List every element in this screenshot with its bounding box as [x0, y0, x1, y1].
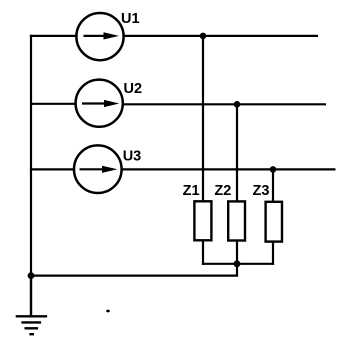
wire: drop phase 2 to Z2: [236, 104, 238, 201]
node: phase 1 / Z1 junction: [200, 33, 207, 40]
voltage source U2: [76, 80, 123, 127]
impedance Z3: [266, 202, 282, 242]
impedance Z1: [194, 201, 211, 240]
stray dot: [106, 310, 110, 313]
svg-text:Z1: Z1: [183, 183, 200, 199]
node: neutral junction: [234, 260, 241, 267]
wire: Z3 bottom stub: [272, 242, 274, 265]
wire: phase 1 U1 to right end: [124, 35, 318, 37]
wire: neutral bus Z1-Z3: [202, 263, 274, 265]
wire: phase 2 U2 to right end: [123, 103, 326, 105]
svg-text:Z2: Z2: [214, 183, 231, 199]
wire: phase 3 rail to U3: [30, 168, 74, 170]
node: return / rail junction: [28, 272, 35, 279]
wire: phase 2 rail to U2: [30, 103, 76, 105]
node: phase 2 / Z2 junction: [234, 101, 241, 108]
ground: [16, 274, 47, 334]
voltage source U1: [76, 13, 123, 60]
wire: phase 3 U3 to right end: [122, 168, 336, 170]
wire: phase 1 rail to U1: [30, 35, 77, 37]
impedance Z2: [228, 201, 245, 240]
svg-text:U1: U1: [121, 11, 140, 27]
voltage source U3: [74, 145, 122, 193]
svg-text:U2: U2: [124, 81, 143, 97]
wire: Z1 bottom stub: [202, 240, 204, 265]
svg-text:U3: U3: [123, 148, 142, 164]
wire: left vertical rail: [30, 35, 32, 276]
wire: neutral return line: [31, 275, 238, 277]
wire: neutral drop to return: [236, 264, 238, 276]
svg-text:Z3: Z3: [253, 183, 270, 199]
wire: drop phase 1 to Z1: [202, 36, 204, 201]
wire: Z2 bottom stub: [236, 241, 238, 264]
wire: drop phase 3 to Z3: [272, 169, 274, 201]
node: phase 3 / Z3 junction: [270, 166, 277, 173]
